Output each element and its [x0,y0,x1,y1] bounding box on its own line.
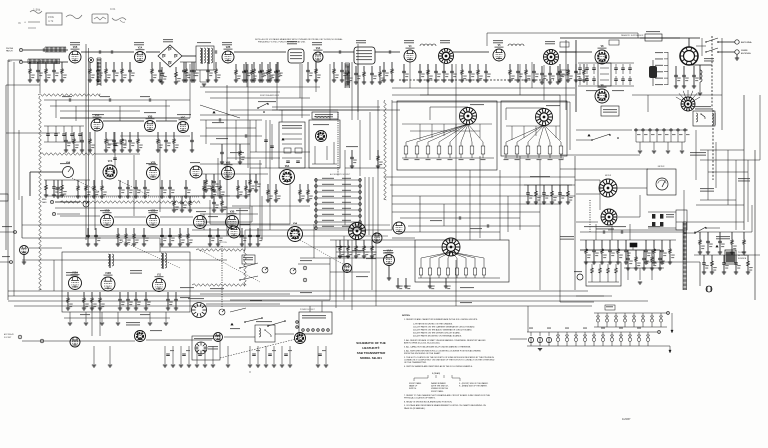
svg-text:ARE IN OHMS (K=1,000, M=1,000,: ARE IN OHMS (K=1,000, M=1,000,000). [404,342,440,345]
svg-text:11/3/67: 11/3/67 [622,417,631,421]
svg-text:PAGE 96 (IF MANUAL).: PAGE 96 (IF MANUAL). [404,407,426,410]
svg-text:FRONT PANEL.: FRONT PANEL. [431,390,444,393]
svg-text:PATCH: PATCH [6,50,13,53]
svg-text:CONNECTS IT COMPLETELY ON ONE: CONNECTS IT COMPLETELY ON ONE SIDE OF TH… [404,359,495,362]
svg-text:SWITCH.: SWITCH. [409,388,417,390]
svg-text:SCHEMATIC OF THE: SCHEMATIC OF THE [356,341,385,345]
svg-text:200-299 PARTS ON THE AUDIO G: 200-299 PARTS ON THE AUDIO GENERATOR CIR… [413,329,473,332]
svg-text:PHYSICAL LOCATION OF PARTS.: PHYSICAL LOCATION OF PARTS. [404,397,436,400]
svg-text:GAIN: GAIN [42,201,47,204]
svg-text:MIC: MIC [8,61,12,63]
svg-text:ANTENNA: ANTENNA [741,52,751,55]
svg-text:SOCKET: SOCKET [4,337,12,339]
svg-text:V2A: V2A [138,47,143,50]
svg-text:SPARE: SPARE [741,49,748,52]
svg-text:OF THE TRANSMITTER.: OF THE TRANSMITTER. [404,361,427,364]
svg-text:IN: IN [18,21,21,25]
svg-text:V3A: V3A [316,47,321,50]
svg-text:1. RESISTOR AND CAPACITOR NUM: 1. RESISTOR AND CAPACITOR NUMBERS ARE IN… [404,318,478,321]
svg-text:0.01: 0.01 [110,7,116,11]
svg-text:1-99 PARTS MOUNTED ON T: 1-99 PARTS MOUNTED ON THE CHASSIS. [413,323,453,326]
svg-text:+: + [24,21,26,25]
svg-text:HEATHKIT®: HEATHKIT® [362,346,380,350]
svg-text:6. SWITCH WAFERS ARE IDENTIFI: 6. SWITCH WAFERS ARE IDENTIFIED AS IN TH… [404,365,473,368]
svg-text:9. VOLTAGE AND RESISTANCE MEA: 9. VOLTAGE AND RESISTANCE MEASUREMENTS L… [404,404,486,407]
svg-text:ANTENNA: ANTENNA [741,41,752,44]
svg-text:NOTE: ALL RF VOLTAGES MEASURED: NOTE: ALL RF VOLTAGES MEASURED WITH VTVM… [255,38,343,41]
svg-text:METER: METER [658,166,665,168]
svg-text:4.7k: 4.7k [48,19,54,23]
svg-text:NOTES:: NOTES: [402,315,411,317]
svg-text:FRONT PANEL: FRONT PANEL [409,382,421,385]
svg-text:FREQUENCY 3.9 MC. FUNCTION SWI: FREQUENCY 3.9 MC. FUNCTION SWITCH AT USB… [258,41,306,44]
svg-text:ANT RELAY: ANT RELAY [4,333,15,336]
svg-text:SOURCE: SOURCE [738,258,747,260]
svg-text:2. ALL RESISTORS ARE 1/2 WATT: 2. ALL RESISTORS ARE 1/2 WATT UNLESS MAR… [404,339,486,342]
svg-text:300-399 PARTS ON THE DRIVER: 300-399 PARTS ON THE DRIVER CIRCUIT BOAR… [413,332,461,335]
svg-text:POWER SOCKET: POWER SOCKET [300,309,316,311]
svg-text:WAFER NUMBER: WAFER NUMBER [431,382,446,385]
svg-text:MODEL SB-401: MODEL SB-401 [360,356,382,360]
svg-text:V7A: V7A [108,160,113,163]
svg-text:PARASITIC SUPPRESSOR: PARASITIC SUPPRESSOR [621,34,644,37]
svg-text:SSB TRANSMITTER: SSB TRANSMITTER [357,351,386,355]
svg-text:FROM THE KNOB END OF THE SHAFT: FROM THE KNOB END OF THE SHAFT. [404,352,441,355]
svg-text:V9A: V9A [293,222,298,225]
svg-text:S (REAR): S (REAR) [432,372,441,375]
svg-text:R - (REAR) SIDE OF THE WAFER.: R - (REAR) SIDE OF THE WAFER. [459,385,488,388]
svg-text:100-199 PARTS ON THE CARRIER: 100-199 PARTS ON THE CARRIER GENERATOR C… [413,326,475,329]
svg-text:7. REFER TO THE CHASSIS PHOTO: 7. REFER TO THE CHASSIS PHOTOGRAPHS AND … [404,394,491,397]
svg-text:SIDETONE AMPLIFIER: SIDETONE AMPLIFIER [260,94,280,97]
svg-text:1.5%: 1.5% [33,8,40,12]
svg-text:5. THE HOT LOCATION ON THE SO: 5. THE HOT LOCATION ON THE SOCKETS OF SO… [404,356,495,359]
svg-text:FUNCTION: FUNCTION [217,242,227,244]
svg-text:TO 120V: TO 120V [738,252,746,254]
svg-text:8. RELAY IS SHOWN IN DE-ENERG: 8. RELAY IS SHOWN IN DE-ENERGIZED POSITI… [404,400,453,403]
svg-text:F - (FRONT) SIDE OF THE WAFER.: F - (FRONT) SIDE OF THE WAFER. [459,382,489,385]
svg-text:3. ALL CAPACITOR VALUES ARE I: 3. ALL CAPACITOR VALUES ARE IN pF UNLESS… [404,346,471,349]
svg-text:V8A: V8A [285,165,290,168]
svg-text:60 CYCLE: 60 CYCLE [738,255,748,257]
svg-text:METER: METER [605,175,612,177]
svg-text:400-499 PARTS MOUNTED ON TER: 400-499 PARTS MOUNTED ON TERMINAL BOARDS… [413,335,462,338]
svg-text:NAME OF: NAME OF [409,385,418,388]
svg-text:4. ALL SWITCHES SHOWN IN FULL: 4. ALL SWITCHES SHOWN IN FULL COUNTERCLO… [404,349,482,352]
svg-text:ACCESSORY SOCKET: ACCESSORY SOCKET [330,173,351,176]
